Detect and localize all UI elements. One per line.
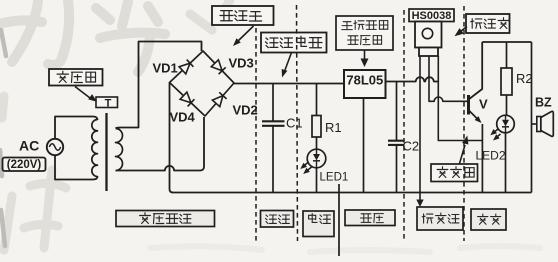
arrow 整流桥 to bridge: [238, 26, 254, 41]
diode VD1: [179, 63, 190, 74]
label (220V): [3, 158, 46, 172]
solid divider line: [338, 184, 340, 256]
section dashed divider 1: [255, 28, 257, 241]
transistor V collector: [469, 42, 483, 100]
svg-text:HS0038: HS0038: [412, 10, 452, 22]
LED LED1: [307, 149, 326, 168]
capacitor C1: [272, 84, 274, 122]
transformer T secondary winding: [116, 129, 123, 171]
arrow to 红外线 label: [419, 193, 421, 201]
label box 放大器: [431, 164, 478, 182]
LED1 emission arrows: [303, 162, 309, 167]
transistor V base bar: [467, 95, 470, 115]
arrow 二端集成稳压器 to 78L05: [364, 50, 366, 59]
LED2 emission arrows: [493, 129, 499, 134]
svg-text:R1: R1: [325, 120, 342, 135]
wire collector rail: [482, 41, 531, 43]
label box 滤波电容: [261, 33, 327, 53]
wire buzzer branch: [531, 42, 533, 193]
arrow 变压器 to T: [75, 87, 90, 99]
buzzer BZ: [532, 123, 538, 125]
AC source symbol: [47, 139, 63, 155]
svg-text:AC: AC: [19, 138, 39, 154]
label box 变压器: [49, 69, 103, 86]
section dashed divider 3: [403, 10, 405, 241]
svg-text:LED1: LED1: [320, 172, 349, 184]
label box 整流桥: [212, 6, 274, 25]
capacitor C2: [396, 82, 398, 141]
LED LED2: [497, 115, 515, 133]
svg-text:78L05: 78L05: [346, 73, 383, 88]
regulator 78L05: [344, 70, 386, 98]
label box T: [96, 97, 118, 108]
wire secondary top to bridge top vertex: [116, 42, 202, 129]
svg-text:VD3: VD3: [229, 56, 254, 71]
svg-text:T: T: [105, 98, 112, 110]
svg-text:VD4: VD4: [170, 110, 196, 125]
arrow 滤波电容 to C1: [285, 53, 292, 71]
label box 二端集成稳压器: [336, 16, 393, 50]
svg-text:C1: C1: [286, 116, 303, 131]
HS0038 leg 1 (ground) wire: [419, 56, 421, 193]
stage label 变压整流: [116, 211, 215, 227]
arrow 放大器 to transistor: [460, 145, 466, 164]
wire AC to transformer primary top: [55, 117, 98, 139]
section dashed divider 2: [297, 5, 298, 241]
HS0038 leg 2 (signal) wire to transistor base with hop: [429, 56, 468, 101]
stage label 电源: [303, 211, 334, 237]
HS0038 leg 3 (supply) wire down to emitter node: [438, 56, 482, 141]
svg-text:VD1: VD1: [153, 61, 178, 76]
wire AC to transformer primary bottom: [55, 155, 98, 179]
section dashed divider 4: [463, 6, 465, 241]
svg-text:LED2: LED2: [476, 149, 506, 163]
wire 78L05 ground lead: [363, 98, 365, 193]
bridge rectifier diamond: [170, 51, 235, 116]
label box HS0038: [409, 9, 454, 22]
wire secondary bottom with crossover hop: [116, 117, 205, 171]
stage label 红外线: [417, 207, 463, 230]
transformer core: [105, 113, 107, 191]
label box 接收头: [466, 14, 510, 33]
IR receiver HS0038 package: [415, 22, 442, 48]
resistor R2: [506, 42, 508, 68]
ground rail: [172, 192, 532, 194]
stage label 稳压: [345, 210, 395, 226]
wire bridge negative vertex to ground rail: [170, 83, 174, 193]
stage label 滤波: [261, 211, 294, 228]
transformer T primary winding: [92, 120, 98, 177]
diode VD3: [211, 60, 222, 71]
wire bridge positive rail: [234, 83, 344, 85]
svg-text:C2: C2: [403, 139, 420, 154]
svg-text:BZ: BZ: [535, 96, 552, 110]
transistor V emitter with arrow: [469, 110, 478, 119]
svg-text:(220V): (220V): [7, 159, 42, 171]
svg-text:V: V: [479, 97, 488, 112]
diode VD4: [180, 92, 191, 103]
stage label 放大: [471, 209, 506, 230]
diode VD2: [212, 96, 223, 107]
resistor R1: [316, 84, 318, 116]
wire 78L05 output rail with hops over receiver legs: [386, 77, 439, 81]
arrow 接收头 to HS0038: [461, 27, 468, 32]
svg-text:R2: R2: [516, 71, 533, 86]
svg-text:VD2: VD2: [233, 103, 258, 118]
